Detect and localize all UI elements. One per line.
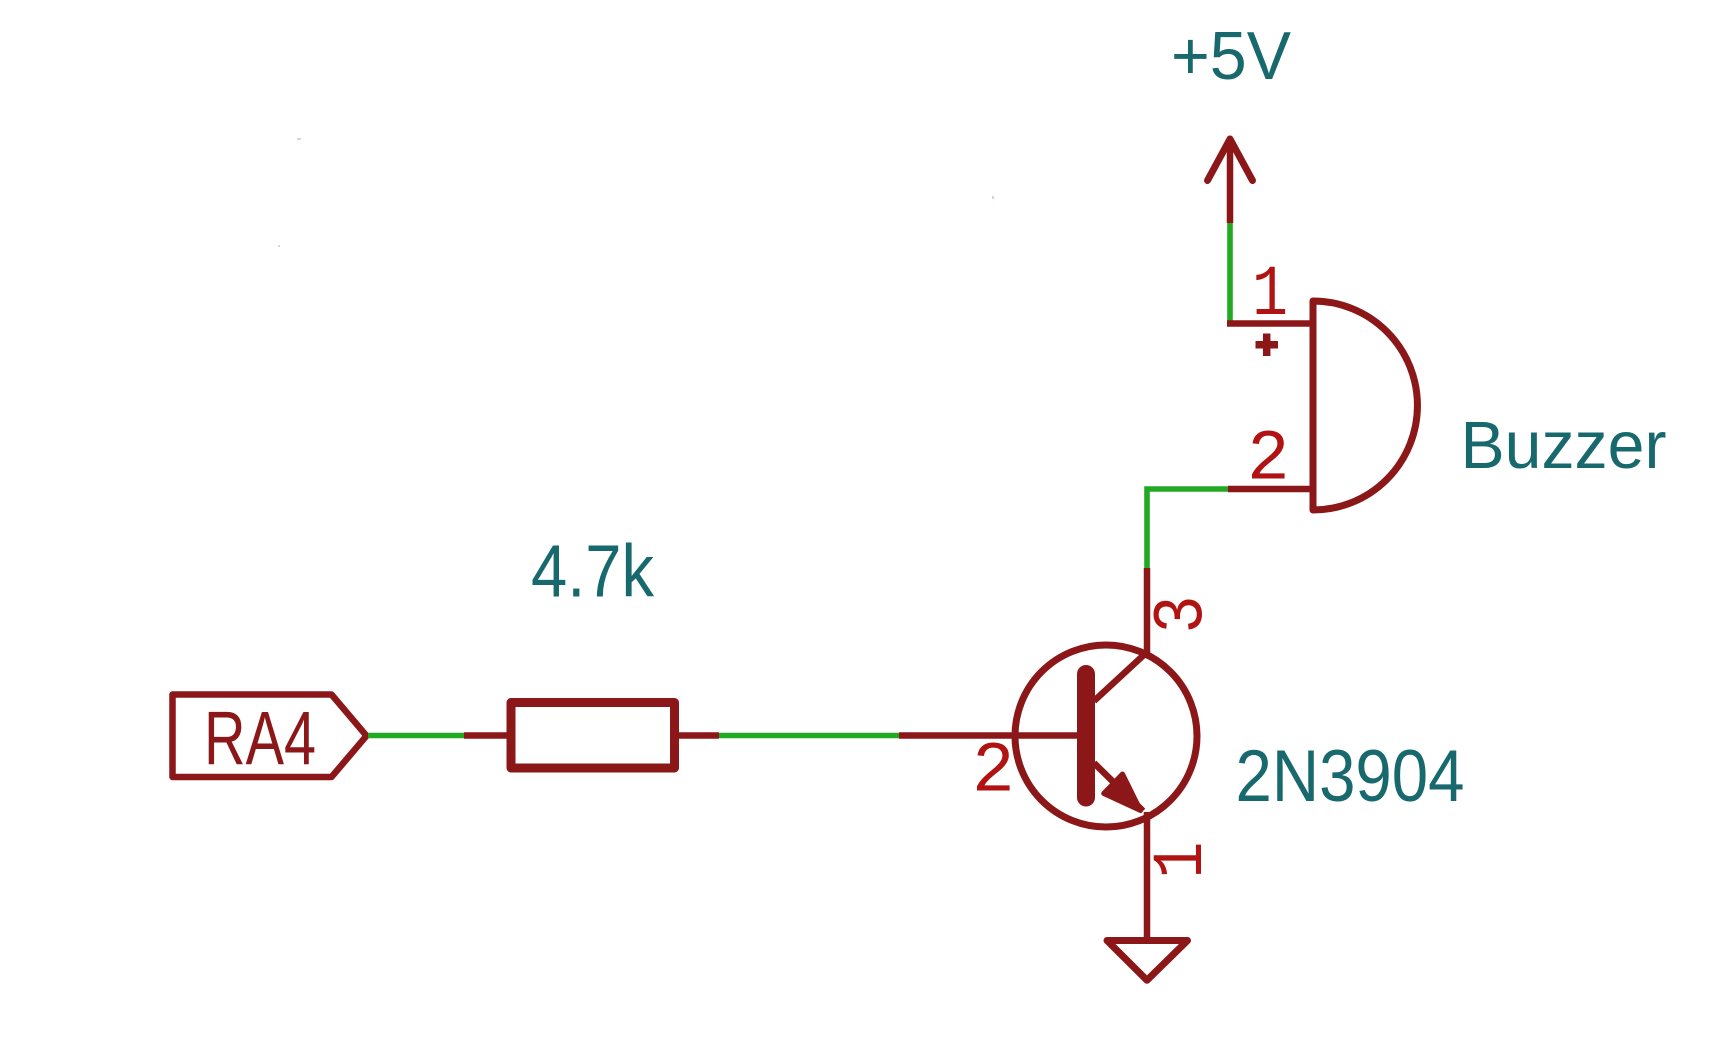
- faint speck artifacts: [278, 138, 994, 247]
- svg-text:3: 3: [1144, 596, 1224, 634]
- pin number 2 (buzzer bottom): [1247, 421, 1290, 501]
- emitter arrowhead: [1104, 774, 1141, 811]
- resistor R1 body: [511, 703, 675, 769]
- ground symbol: [1107, 941, 1188, 981]
- emitter pin lead (pin 1): [1144, 812, 1151, 940]
- net name RA4: [204, 697, 316, 782]
- buzzer label Buzzer: [1461, 408, 1667, 483]
- svg-text:RA4: RA4: [204, 697, 316, 782]
- pin 1 lead of buzzer: [1227, 320, 1313, 327]
- pin number 1 (emitter, rotated): [1143, 842, 1223, 879]
- power supply arrow symbol +5V: [1208, 139, 1253, 223]
- svg-text:Buzzer: Buzzer: [1461, 408, 1667, 483]
- transistor base bar: [1077, 674, 1095, 798]
- buzzer polarity + mark: [1256, 334, 1279, 357]
- emitter internal diagonal: [1094, 763, 1143, 811]
- wire collector to buzzer green L-shape: [1147, 489, 1228, 570]
- svg-text:4.7k: 4.7k: [531, 530, 655, 613]
- resistor R1 right lead: [675, 732, 720, 739]
- buzzer SG1 body: [1313, 301, 1417, 510]
- pin number 2 (base): [972, 733, 1015, 813]
- svg-text:2N3904: 2N3904: [1236, 736, 1465, 817]
- svg-text:1: 1: [1143, 842, 1223, 879]
- collector pin lead (pin 3): [1144, 568, 1151, 656]
- pin number 3 (collector, rotated): [1144, 596, 1224, 634]
- svg-text:+5V: +5V: [1171, 18, 1292, 94]
- pin 2 lead of buzzer: [1228, 486, 1313, 493]
- svg-text:2: 2: [972, 733, 1015, 813]
- pin number 1 (buzzer top): [1252, 256, 1288, 336]
- transistor label 2N3904: [1236, 736, 1465, 817]
- net flag RA4: [173, 695, 367, 778]
- net label +5V: [1171, 18, 1292, 94]
- wire RA4 to resistor green: [368, 733, 466, 739]
- collector internal diagonal: [1094, 652, 1147, 701]
- wire resistor to base green: [719, 733, 899, 739]
- resistor R1 left lead: [464, 732, 508, 739]
- transistor Q1 2N3904 circle: [1015, 645, 1197, 827]
- base lead wire (maroon) into bar: [899, 732, 1080, 739]
- wire +5V net vertical green: [1227, 223, 1233, 324]
- resistor value 4.7k: [531, 530, 655, 613]
- svg-text:1: 1: [1252, 256, 1288, 336]
